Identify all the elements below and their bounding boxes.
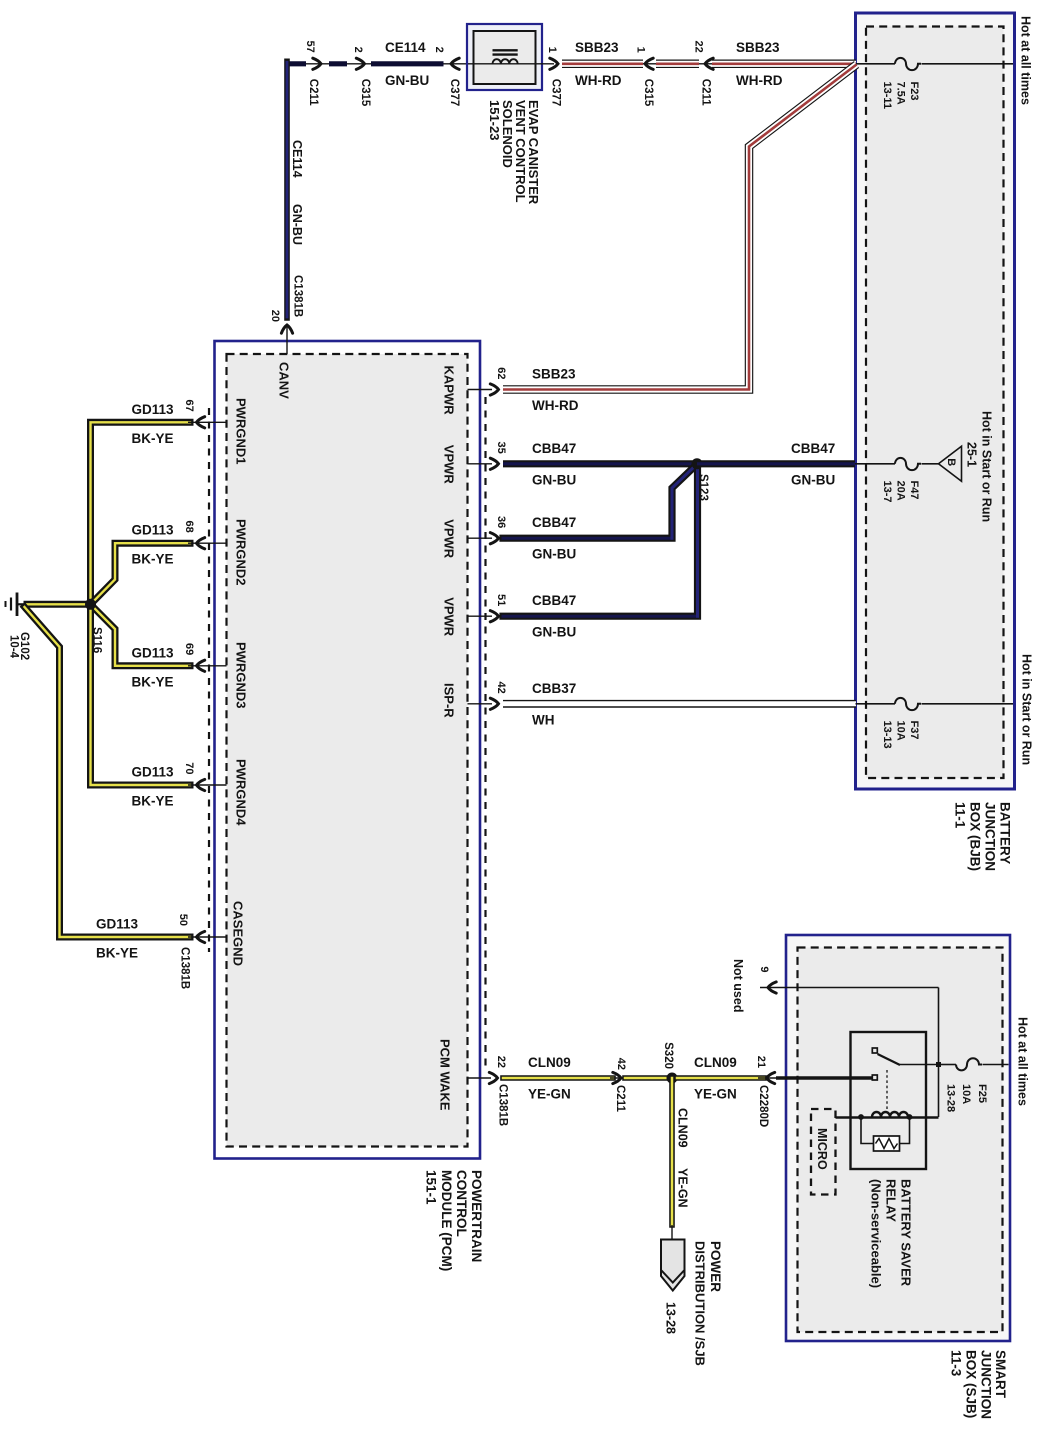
svg-text:GN-BU: GN-BU [791, 472, 835, 487]
fuse F23 7.5A [881, 58, 921, 109]
svg-text:S123: S123 [697, 474, 709, 501]
svg-text:YE-GN: YE-GN [528, 1087, 571, 1102]
connector C377 pin 2 [433, 47, 460, 107]
svg-text:2: 2 [433, 47, 445, 53]
svg-text:VPWR: VPWR [441, 597, 456, 637]
svg-text:57: 57 [304, 41, 316, 53]
svg-text:21: 21 [755, 1056, 767, 1068]
svg-text:GN-BU: GN-BU [290, 204, 304, 245]
svg-text:POWER: POWER [708, 1241, 723, 1292]
svg-text:S320: S320 [662, 1042, 674, 1069]
svg-text:GD113: GD113 [132, 765, 175, 780]
svg-text:42: 42 [615, 1058, 627, 1070]
ground G102 [6, 593, 30, 661]
svg-text:SBB23: SBB23 [736, 40, 780, 55]
powertrain control module (PCM) box [209, 341, 486, 1271]
PCM pin 62 KAPWR connector [468, 367, 508, 395]
wire to fuse F37 [856, 703, 896, 705]
relay coil [836, 1112, 939, 1120]
wire F47 to triangle [922, 463, 940, 465]
svg-text:Hot at all times: Hot at all times [1019, 16, 1033, 105]
svg-text:CONTROL: CONTROL [454, 1170, 469, 1237]
svg-text:CBB47: CBB47 [532, 441, 576, 456]
label battery saver relay [868, 1179, 913, 1288]
svg-text:ISP-R: ISP-R [441, 683, 456, 718]
label Hot in Start or Run (right edge) [1020, 654, 1034, 765]
svg-text:S116: S116 [90, 627, 102, 653]
svg-text:67: 67 [183, 400, 195, 412]
svg-text:C315: C315 [642, 79, 654, 107]
svg-text:SMART: SMART [993, 1350, 1008, 1399]
wire CBB47 GN-BU pin51 to splice [503, 466, 698, 640]
svg-text:JUNCTION: JUNCTION [979, 1350, 994, 1419]
wire BK-YE ground to splice S116 [27, 601, 86, 608]
svg-text:MODULE (PCM): MODULE (PCM) [439, 1170, 454, 1271]
svg-text:GD113: GD113 [132, 402, 175, 417]
svg-text:Hot in Start or Run: Hot in Start or Run [980, 411, 994, 522]
svg-text:22: 22 [495, 1056, 507, 1068]
svg-text:MICRO: MICRO [815, 1128, 829, 1170]
svg-text:C377: C377 [448, 79, 460, 107]
svg-text:BK-YE: BK-YE [132, 794, 174, 809]
wire CBB47 GN-BU pin35 to splice [503, 441, 697, 488]
svg-text:BK-YE: BK-YE [96, 946, 138, 961]
svg-text:C1381B: C1381B [496, 1084, 508, 1126]
svg-text:70: 70 [183, 762, 195, 774]
svg-text:C211: C211 [307, 79, 319, 106]
svg-text:C2280D: C2280D [757, 1085, 769, 1127]
wire pin 21 into relay [776, 1076, 872, 1079]
svg-text:PCM WAKE: PCM WAKE [437, 1039, 452, 1111]
wire CLN09 YE-GN segment 3 [677, 1055, 764, 1102]
svg-text:CANV: CANV [276, 362, 291, 399]
svg-text:25-1: 25-1 [965, 442, 979, 467]
relay switch contacts [872, 1048, 938, 1110]
connector C315 pin 1 [635, 47, 659, 107]
svg-text:Hot at all times: Hot at all times [1016, 1017, 1030, 1106]
svg-text:13-13: 13-13 [881, 721, 893, 749]
svg-text:2: 2 [352, 47, 364, 53]
PCM pin 68 PWRGND2 connector [183, 519, 248, 585]
svg-text:GN-BU: GN-BU [532, 547, 576, 562]
svg-text:PWRGND2: PWRGND2 [233, 519, 248, 585]
fuse F47 20A [881, 458, 921, 503]
svg-text:13-28: 13-28 [945, 1084, 957, 1112]
svg-text:WH-RD: WH-RD [736, 73, 783, 88]
svg-text:13-7: 13-7 [881, 481, 893, 503]
connector C211 pin 57 [304, 41, 321, 107]
svg-text:CE114: CE114 [385, 40, 426, 55]
svg-text:VPWR: VPWR [441, 519, 456, 559]
svg-text:CLN09: CLN09 [676, 1108, 690, 1148]
svg-text:F25: F25 [976, 1084, 988, 1103]
splice S123 [692, 458, 709, 501]
svg-text:CLN09: CLN09 [528, 1055, 571, 1070]
wire to fuse F47 [855, 463, 895, 465]
svg-text:13-28: 13-28 [664, 1302, 678, 1334]
svg-text:151-1: 151-1 [424, 1170, 439, 1205]
svg-text:CBB47: CBB47 [791, 441, 835, 456]
svg-text:C211: C211 [614, 1085, 626, 1112]
connector C211 pin 42 (bottom) [610, 1058, 627, 1113]
svg-text:BK-YE: BK-YE [132, 431, 174, 446]
connector C211 pin 22 [693, 41, 715, 107]
svg-text:YE-GN: YE-GN [694, 1087, 737, 1102]
svg-text:68: 68 [183, 520, 195, 532]
battery saver relay box [851, 1032, 927, 1169]
svg-text:CBB37: CBB37 [532, 681, 576, 696]
wire GD113 BK-YE to pin 67 [91, 402, 191, 605]
svg-text:C1381B: C1381B [178, 947, 190, 989]
PCM pin 51 VPWR connector [441, 594, 507, 637]
label Hot at all times (SJB) [1016, 1017, 1030, 1106]
svg-text:F23: F23 [908, 82, 920, 101]
label Hot at all times (top right) [1019, 16, 1033, 105]
svg-text:CBB47: CBB47 [532, 515, 576, 530]
label Hot in Start or Run 25-1 [965, 411, 994, 522]
svg-text:BATTERY: BATTERY [998, 802, 1013, 864]
wire CE114 GN-BU vertical run [284, 61, 290, 318]
PCM pin 67 PWRGND1 connector [183, 398, 248, 464]
wire CBB47 GN-BU splice to BJB [697, 441, 855, 488]
EVAP canister vent control solenoid [467, 24, 554, 205]
fuse F37 10A [881, 698, 921, 749]
svg-text:7.5A: 7.5A [895, 82, 907, 105]
relay resistor [861, 1117, 910, 1151]
svg-text:CBB47: CBB47 [532, 593, 576, 608]
svg-text:VPWR: VPWR [441, 445, 456, 485]
svg-text:35: 35 [495, 442, 507, 454]
svg-text:50: 50 [177, 914, 189, 926]
svg-text:YE-GN: YE-GN [676, 1168, 690, 1208]
smart junction box (SJB) [786, 935, 1010, 1419]
label CE114 GN-BU [385, 40, 429, 88]
wire SBB23 WH-RD segment 2 [656, 60, 699, 69]
svg-text:F47: F47 [908, 481, 920, 500]
wire CLN09 YE-GN segment 1 [503, 1055, 613, 1102]
svg-text:PWRGND1: PWRGND1 [233, 398, 248, 464]
svg-text:PWRGND4: PWRGND4 [233, 759, 248, 826]
svg-text:GN-BU: GN-BU [385, 73, 429, 88]
svg-text:SBB23: SBB23 [575, 40, 619, 55]
svg-text:BOX (BJB): BOX (BJB) [968, 802, 983, 871]
svg-text:20: 20 [269, 310, 281, 322]
svg-text:F37: F37 [908, 721, 920, 740]
PCM pin 35 VPWR connector [441, 442, 507, 485]
wire F23 to Hot at all times [922, 63, 1014, 65]
splice S116 [85, 599, 102, 653]
svg-text:BATTERY SAVER: BATTERY SAVER [898, 1179, 913, 1287]
wire CE114 GN-BU horizontal run [285, 63, 468, 65]
svg-text:GD113: GD113 [96, 917, 139, 932]
wire CLN09 YE-GN segment 2 [625, 1075, 668, 1081]
svg-text:PWRGND3: PWRGND3 [233, 642, 248, 708]
svg-text:20A: 20A [895, 481, 907, 501]
PCM pin 50 CASEGND connector C1381B [177, 901, 245, 989]
svg-text:C211: C211 [699, 79, 711, 106]
svg-text:GN-BU: GN-BU [532, 625, 576, 640]
svg-text:CASEGND: CASEGND [230, 901, 245, 966]
wire CLN09 YE-GN vertical to SJB power distribution [672, 1078, 690, 1240]
svg-text:1: 1 [546, 47, 558, 53]
wire into fuse F23 [856, 63, 895, 65]
svg-text:WH-RD: WH-RD [575, 73, 622, 88]
wire SBB23 WH-RD segment 3 [712, 40, 856, 88]
wire SBB23 WH-RD segment 1 [562, 40, 643, 88]
svg-text:CE114: CE114 [290, 140, 304, 178]
wire CBB37 WH [503, 681, 856, 728]
svg-text:CLN09: CLN09 [694, 1055, 737, 1070]
svg-text:WH-RD: WH-RD [532, 398, 579, 413]
svg-text:(Non-serviceable): (Non-serviceable) [868, 1179, 883, 1288]
svg-text:11-1: 11-1 [953, 802, 968, 829]
wire vertical relay feed [938, 988, 940, 1118]
svg-text:Hot in Start or Run: Hot in Start or Run [1020, 654, 1034, 765]
svg-text:GD113: GD113 [132, 645, 175, 660]
splice S320 [662, 1042, 678, 1083]
svg-text:RELAY: RELAY [883, 1179, 898, 1222]
svg-text:62: 62 [495, 367, 507, 379]
pin name CANV [276, 362, 291, 399]
svg-text:151-23: 151-23 [487, 100, 502, 140]
svg-text:B: B [945, 458, 957, 466]
svg-text:C315: C315 [359, 79, 371, 107]
svg-text:KAPWR: KAPWR [441, 366, 456, 416]
wire GD113 BK-YE to pin 68 [94, 523, 191, 602]
connector C315 pin 2 [352, 47, 371, 107]
svg-text:GN-BU: GN-BU [532, 472, 576, 487]
PCM pin 22 PCM WAKE connector C1381B [437, 1039, 508, 1126]
svg-text:51: 51 [495, 594, 507, 606]
svg-text:11-3: 11-3 [949, 1350, 964, 1377]
svg-text:42: 42 [495, 682, 507, 694]
off-page connector POWER DISTRIBUTION /SJB [661, 1240, 723, 1366]
svg-text:10-4: 10-4 [7, 635, 19, 659]
connector C377 pin 1 (right of solenoid) [546, 47, 561, 107]
svg-text:WH: WH [532, 712, 555, 727]
svg-text:SBB23: SBB23 [532, 367, 576, 382]
PCM pin 69 PWRGND3 connector [183, 642, 248, 708]
PCM pin 42 ISP-R connector [441, 682, 507, 719]
pin name KAPWR [441, 366, 456, 416]
wire F37 to Hot in Start or Run [922, 703, 1014, 705]
svg-text:JUNCTION: JUNCTION [983, 802, 998, 871]
svg-text:Not used: Not used [731, 959, 745, 1012]
connector C1381B pin 20 arrow [269, 310, 293, 354]
svg-text:13-11: 13-11 [881, 82, 893, 110]
fuse F25 10A [936, 1058, 1009, 1112]
label SBB23 WH-RD at KAPWR [532, 367, 579, 414]
svg-text:GD113: GD113 [132, 523, 175, 538]
svg-text:BOX (SJB): BOX (SJB) [964, 1350, 979, 1418]
svg-text:10A: 10A [895, 721, 907, 741]
wire CBB47 GN-BU pin36 to splice [503, 467, 695, 562]
svg-text:DISTRIBUTION /SJB: DISTRIBUTION /SJB [692, 1241, 707, 1366]
triangle connector B [939, 446, 962, 481]
svg-text:C377: C377 [549, 79, 561, 107]
svg-text:69: 69 [183, 643, 195, 655]
svg-text:POWERTRAIN: POWERTRAIN [469, 1170, 484, 1262]
PCM pin 36 VPWR connector [441, 516, 507, 559]
battery junction box (BJB) [856, 13, 1015, 871]
wire GD113 BK-YE to pin 50 [25, 607, 191, 961]
pin 9 Not used connector [731, 959, 939, 1012]
PCM pin 70 PWRGND4 connector [183, 759, 248, 826]
svg-text:C1381B: C1381B [291, 275, 303, 317]
MICRO box [811, 1109, 836, 1195]
svg-text:BK-YE: BK-YE [132, 552, 174, 567]
labels along vertical CE114 wire [290, 140, 304, 317]
svg-text:36: 36 [495, 516, 507, 528]
svg-text:9: 9 [758, 966, 770, 972]
wire SBB23 WH-RD diagonal branch [503, 65, 857, 390]
svg-text:1: 1 [635, 47, 647, 53]
svg-text:BK-YE: BK-YE [132, 674, 174, 689]
svg-text:22: 22 [693, 41, 705, 53]
wire GD113 BK-YE to pin 70 [91, 604, 191, 808]
connector C2280D pin 21 [755, 1056, 776, 1127]
svg-text:10A: 10A [960, 1084, 972, 1104]
wire GD113 BK-YE to pin 69 [94, 607, 191, 689]
